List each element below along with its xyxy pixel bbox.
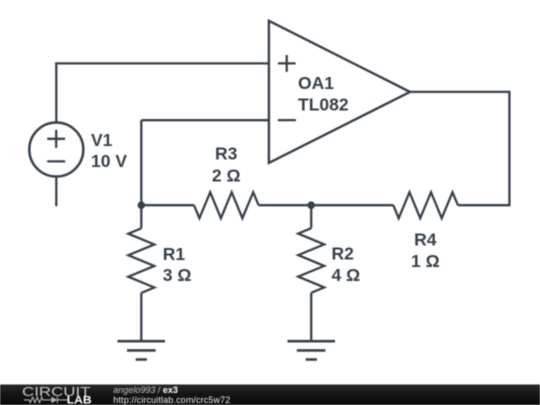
ground under R1 [118, 341, 166, 359]
svg-text:R2: R2 [332, 244, 355, 264]
wire right vertical [508, 92, 510, 206]
wire R4 to right corner [458, 204, 510, 206]
svg-text:1 Ω: 1 Ω [411, 251, 440, 271]
svg-text:2 Ω: 2 Ω [212, 166, 241, 186]
svg-text:R4: R4 [414, 229, 437, 249]
logo schematic line with resistor and diode [24, 397, 69, 403]
op-amp + input marker [278, 55, 296, 72]
svg-text:angelo993 / ex3: angelo993 / ex3 [113, 385, 178, 395]
svg-text:TL082: TL082 [298, 94, 349, 114]
wire R3 to node B [259, 204, 312, 206]
svg-text:R3: R3 [215, 144, 238, 164]
wire R2 to ground [310, 293, 312, 341]
svg-text:http://circuitlab.com/crc5w72: http://circuitlab.com/crc5w72 [113, 395, 230, 405]
voltage source V1 [29, 123, 83, 177]
wire node B to R4 [311, 204, 393, 206]
wire - input horizontal [141, 119, 269, 121]
resistor R4 [393, 192, 458, 218]
svg-text:10 V: 10 V [91, 151, 127, 171]
wire V1 bottom stub [55, 177, 57, 206]
resistor R1 [128, 228, 154, 293]
svg-text:4 Ω: 4 Ω [332, 265, 361, 285]
resistor R3 [194, 192, 259, 218]
op-amp U1 triangle [269, 21, 410, 163]
resistor R2 [298, 228, 324, 293]
node A junction dot [138, 201, 146, 209]
wire top horizontal to op-amp + input [55, 62, 269, 64]
wire - input vertical down [140, 120, 142, 205]
wire node A to R3 [141, 204, 194, 206]
node B junction dot [307, 201, 315, 209]
svg-text:V1: V1 [91, 130, 113, 150]
ground under R2 [288, 341, 336, 359]
op-amp - input marker [278, 119, 296, 121]
svg-text:LAB: LAB [67, 395, 92, 405]
svg-text:R1: R1 [163, 244, 186, 264]
wire R1 to ground [140, 293, 142, 341]
wire node B down to R2 [310, 204, 312, 228]
logo diode triangle [51, 397, 57, 404]
wire V1 top vertical [55, 63, 57, 121]
svg-text:OA1: OA1 [298, 73, 334, 93]
wire node A down to R1 [140, 204, 142, 228]
wire op-amp output [410, 91, 511, 93]
svg-text:3 Ω: 3 Ω [163, 265, 192, 285]
footer bar [0, 384, 540, 405]
